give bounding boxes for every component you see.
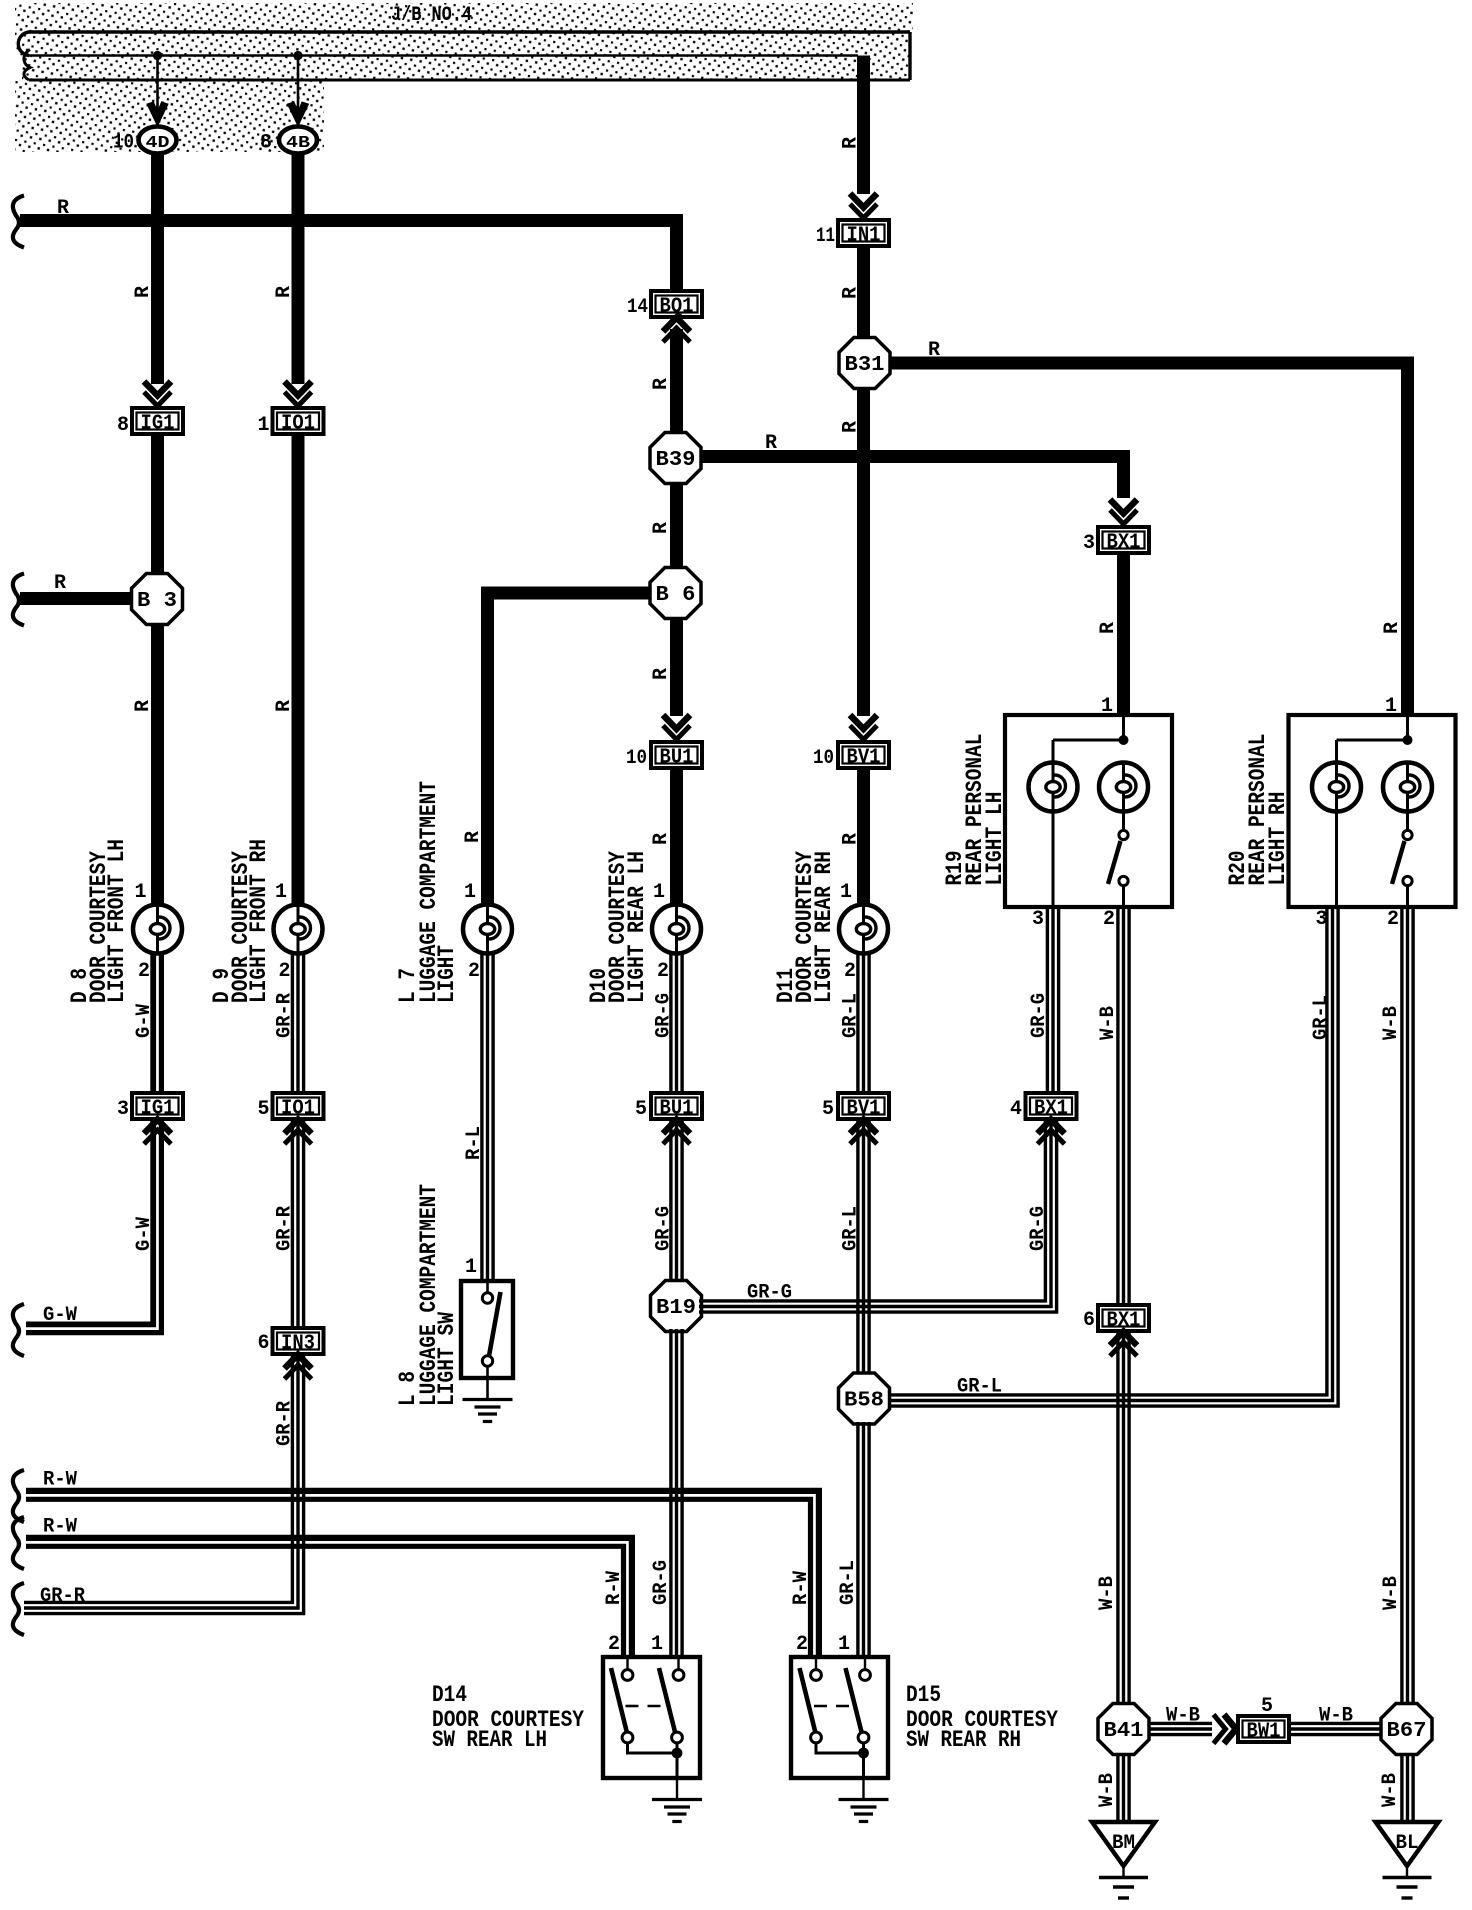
lamp D10 DOOR COURTESY LIGHT REAR LH <box>652 905 701 954</box>
svg-text:R: R <box>928 339 940 362</box>
svg-text:D14: D14 <box>432 1682 467 1708</box>
svg-text:R-W: R-W <box>790 1571 813 1605</box>
svg-text:BV1: BV1 <box>847 747 881 770</box>
svg-text:G-W: G-W <box>43 1304 77 1327</box>
svg-text:GR-G: GR-G <box>1028 993 1051 1038</box>
svg-text:LIGHT REAR LH: LIGHT REAR LH <box>624 851 650 1003</box>
label R20 REAR PERSONAL LIGHT RH <box>1225 734 1291 886</box>
arrow out of IG1 lower <box>144 1120 171 1134</box>
svg-text:3: 3 <box>117 1098 129 1121</box>
wire R vertical from 4B to IO1 <box>292 153 305 384</box>
svg-text:R: R <box>132 700 155 712</box>
arrow out of BU1 lower <box>663 1120 690 1134</box>
svg-text:SW REAR RH: SW REAR RH <box>906 1727 1021 1753</box>
connector 3 BX1 <box>1098 527 1149 555</box>
svg-text:R: R <box>840 287 863 299</box>
svg-text:2: 2 <box>844 960 856 983</box>
wire R from J/B to IN1 <box>857 56 870 195</box>
label D11 DOOR COURTESY LIGHT REAR RH <box>773 851 837 1003</box>
svg-text:BW1: BW1 <box>1247 1721 1281 1744</box>
svg-text:IO1: IO1 <box>281 413 315 436</box>
node B39 <box>650 433 701 484</box>
wire R vertical from 4D to IG1 <box>151 153 164 384</box>
svg-text:GR-L: GR-L <box>840 1206 863 1251</box>
ground at D15 <box>839 1798 889 1801</box>
svg-text:2: 2 <box>1103 908 1115 931</box>
svg-text:2: 2 <box>1387 908 1399 931</box>
svg-text:10: 10 <box>813 747 834 770</box>
connector 8 IG1 <box>132 408 183 436</box>
svg-text:1: 1 <box>257 414 269 437</box>
arrow into IN1 <box>850 194 877 208</box>
node B58 <box>839 1373 890 1424</box>
wire W-B from R19 pin 2 to BX1 (6) <box>1116 909 1119 1305</box>
wire R from BV1 to lamp D11 <box>857 768 870 906</box>
svg-text:R: R <box>54 572 66 595</box>
arrow out of IO1 lower <box>285 1120 312 1134</box>
svg-text:2: 2 <box>278 960 290 983</box>
ground triangle BL <box>1376 1822 1439 1876</box>
wire R from B6 left to lamp L7 <box>481 587 652 600</box>
svg-text:R: R <box>1381 622 1404 634</box>
svg-text:2: 2 <box>608 1633 620 1656</box>
svg-text:J/B NO.4: J/B NO.4 <box>391 4 472 27</box>
svg-text:2: 2 <box>796 1633 808 1656</box>
label D10 DOOR COURTESY LIGHT REAR LH <box>586 851 650 1003</box>
connector 3 IG1 lower <box>132 1093 183 1121</box>
svg-text:GR-G: GR-G <box>650 1560 673 1605</box>
arrow out of BX1 (6) <box>1110 1332 1137 1346</box>
wire R from BU1 to lamp D10 <box>670 768 683 906</box>
svg-text:LIGHT SW: LIGHT SW <box>434 1312 460 1406</box>
svg-text:GR-R: GR-R <box>274 993 297 1038</box>
svg-text:6: 6 <box>1083 1309 1095 1332</box>
connector 10 BV1 <box>838 742 889 770</box>
svg-text:R: R <box>273 700 296 712</box>
node B67 <box>1381 1704 1432 1755</box>
tap junction dot 4D <box>153 51 162 60</box>
svg-text:R: R <box>650 833 673 845</box>
ground hatch BL <box>1383 1876 1432 1879</box>
lamp D8 DOOR COURTESY LIGHT FRONT LH <box>133 905 182 954</box>
arrow out of BX1 (4) <box>1038 1120 1065 1134</box>
ground triangle BM <box>1092 1822 1155 1876</box>
component R19 REAR PERSONAL LIGHT LH <box>1005 715 1172 907</box>
svg-text:IG1: IG1 <box>141 413 175 436</box>
wire GR-G from lamp D10 to BU1 (5) <box>669 953 672 1093</box>
svg-text:2: 2 <box>657 960 669 983</box>
svg-text:GR-G: GR-G <box>1027 1206 1050 1251</box>
wire W-B from BW1 to B67 <box>1290 1722 1382 1725</box>
switch D15 DOOR COURTESY SW REAR RH <box>791 1657 888 1798</box>
svg-text:GR-R: GR-R <box>40 1585 85 1608</box>
connector 5 IO1 lower <box>273 1093 324 1121</box>
wire R break to B3 <box>20 592 133 605</box>
wire GR-R from IO1 to IN3 <box>291 1119 294 1328</box>
break symbol G-W <box>13 1304 24 1356</box>
svg-text:R: R <box>132 286 155 298</box>
svg-text:3: 3 <box>1032 908 1044 931</box>
svg-text:W-B: W-B <box>1379 1773 1402 1807</box>
svg-text:4B: 4B <box>286 134 310 153</box>
wire R from B6 down to BU1 <box>670 617 683 716</box>
svg-text:BX1: BX1 <box>1107 532 1141 555</box>
svg-text:W-B: W-B <box>1096 1773 1119 1807</box>
svg-text:R: R <box>462 831 485 843</box>
wire R from IG1 down through B3 to lamp D8 <box>151 434 164 906</box>
svg-text:5: 5 <box>635 1098 647 1121</box>
break symbol R at B3 <box>13 574 24 626</box>
node B19 <box>651 1281 702 1332</box>
svg-text:R: R <box>650 522 673 534</box>
svg-text:B 3: B 3 <box>137 590 177 613</box>
wire R from B39 down to B6 <box>670 482 683 570</box>
wire GR-L from lamp D11 to BV1 (5) <box>856 953 859 1093</box>
arrow out of BQ1 <box>663 318 690 332</box>
svg-text:1: 1 <box>464 881 476 904</box>
arrow into BW1 <box>1224 1715 1236 1744</box>
connector 11 IN1 <box>838 220 889 248</box>
svg-text:5: 5 <box>257 1098 269 1121</box>
svg-text:D15: D15 <box>906 1682 941 1708</box>
svg-text:G-W: G-W <box>133 1004 156 1038</box>
svg-text:R: R <box>840 833 863 845</box>
wire G-W from lamp D8 to IG1 (3) <box>150 953 156 1093</box>
switch L8 LUGGAGE COMPARTMENT LIGHT SW <box>461 1281 513 1398</box>
wire R horizontal feed to BQ1 <box>20 214 670 227</box>
svg-text:GR-G: GR-G <box>653 993 676 1038</box>
bus bar of J/B NO.4 <box>18 32 910 80</box>
svg-text:R: R <box>650 668 673 680</box>
svg-text:10: 10 <box>113 132 134 155</box>
svg-text:BU1: BU1 <box>660 747 694 770</box>
wire R from B39 to BX1 right <box>699 450 1130 463</box>
svg-text:B67: B67 <box>1387 1720 1427 1743</box>
svg-text:B41: B41 <box>1104 1720 1144 1743</box>
svg-text:R: R <box>1097 622 1120 634</box>
svg-text:14: 14 <box>627 296 648 319</box>
svg-text:GR-G: GR-G <box>653 1206 676 1251</box>
label D15 DOOR COURTESY SW REAR RH <box>906 1682 1058 1753</box>
junction block J/B NO.4 stipple background <box>15 3 913 152</box>
arrow into BU1 <box>663 715 690 729</box>
lamp L7 LUGGAGE COMPARTMENT LIGHT <box>463 905 512 954</box>
wire R from B31 down to BV1 <box>857 387 870 716</box>
svg-text:5: 5 <box>1261 1695 1273 1718</box>
break symbol GR-R <box>13 1583 24 1635</box>
svg-text:1: 1 <box>840 881 852 904</box>
svg-text:R: R <box>273 286 296 298</box>
svg-text:GR-R: GR-R <box>274 1401 297 1446</box>
svg-text:G-W: G-W <box>133 1217 156 1251</box>
tap arrow 4D <box>147 102 168 126</box>
svg-text:LIGHT FRONT LH: LIGHT FRONT LH <box>104 839 130 1003</box>
svg-text:R: R <box>840 421 863 433</box>
label D9 DOOR COURTESY LIGHT FRONT RH <box>209 839 272 1003</box>
svg-text:B58: B58 <box>844 1390 884 1413</box>
svg-text:LIGHT REAR RH: LIGHT REAR RH <box>811 851 837 1003</box>
tap junction dot 4B <box>293 51 302 60</box>
node B 6 <box>650 568 701 619</box>
connector 4 BX1 <box>1026 1093 1077 1121</box>
svg-text:R: R <box>840 137 863 149</box>
svg-text:IN1: IN1 <box>847 225 881 248</box>
connector 6 IN3 <box>273 1328 324 1356</box>
wire GR-R from IN3 down to break <box>24 1353 292 1602</box>
wire R from IO1 down to lamp D9 <box>292 434 305 906</box>
svg-text:4D: 4D <box>146 134 170 153</box>
svg-text:W-B: W-B <box>1097 1006 1120 1040</box>
ground hatch BM <box>1099 1876 1148 1879</box>
wire GR-G from R19 pin 3 to BX1 (4) <box>1046 909 1049 1093</box>
svg-text:5: 5 <box>822 1098 834 1121</box>
svg-text:1: 1 <box>651 1633 663 1656</box>
svg-text:B39: B39 <box>656 449 696 472</box>
label D8 DOOR COURTESY LIGHT FRONT LH <box>67 839 130 1003</box>
svg-text:GR-L: GR-L <box>840 993 863 1038</box>
wire GR-G from BU1 to B19 <box>669 1119 672 1283</box>
svg-text:8: 8 <box>117 414 129 437</box>
svg-text:W-B: W-B <box>1166 1705 1200 1728</box>
wire R from B39 up to BQ1 <box>670 329 683 434</box>
svg-text:R-W: R-W <box>603 1571 626 1605</box>
svg-text:W-B: W-B <box>1096 1576 1119 1610</box>
svg-text:BM: BM <box>1112 1832 1135 1855</box>
svg-text:W-B: W-B <box>1380 1576 1403 1610</box>
svg-text:W-B: W-B <box>1380 1006 1403 1040</box>
svg-text:GR-L: GR-L <box>1310 995 1333 1040</box>
label D14 DOOR COURTESY SW REAR LH <box>432 1682 584 1753</box>
svg-text:8: 8 <box>260 132 272 155</box>
label L8 LUGGAGE COMPARTMENT LIGHT SW <box>395 1184 460 1406</box>
node B41 <box>1098 1704 1149 1755</box>
lamp D11 DOOR COURTESY LIGHT REAR RH <box>839 905 888 954</box>
svg-text:B31: B31 <box>845 354 885 377</box>
arrow into BX1 (3) <box>1110 500 1137 514</box>
wire R from IN1 to B31 <box>857 246 870 340</box>
tap wire to connector 4D <box>156 56 159 128</box>
tap wire to connector 4B <box>297 56 300 128</box>
wire R-L from lamp L7 to luggage switch L8 <box>480 953 483 1281</box>
svg-text:4: 4 <box>1010 1098 1022 1121</box>
svg-text:SW REAR LH: SW REAR LH <box>432 1727 547 1753</box>
lamp D9 DOOR COURTESY LIGHT FRONT RH <box>274 905 323 954</box>
arrow out of IN3 <box>285 1355 312 1369</box>
svg-text:GR-R: GR-R <box>274 1206 297 1251</box>
node B 3 <box>132 574 183 625</box>
connector 5 BW1 <box>1238 1716 1289 1744</box>
svg-text:2: 2 <box>138 960 150 983</box>
svg-text:11: 11 <box>816 225 835 248</box>
connector 5 BV1 lower <box>838 1093 889 1121</box>
wire GR-L from B58 right up to R20 pin 3 <box>889 908 1327 1395</box>
wire W-B from B41 to ground BM <box>1116 1753 1119 1822</box>
wire W-B from B41 to BW1 <box>1149 1722 1212 1725</box>
svg-text:BL: BL <box>1396 1832 1419 1855</box>
wire G-W from IG1 to break <box>26 1119 153 1324</box>
svg-text:3: 3 <box>1083 532 1095 555</box>
wire W-B from BX1 (6) down to B41 <box>1116 1330 1119 1705</box>
svg-text:R-L: R-L <box>463 1126 486 1160</box>
svg-text:GR-G: GR-G <box>747 1282 792 1305</box>
switch D14 DOOR COURTESY SW REAR LH <box>603 1657 700 1798</box>
svg-text:6: 6 <box>257 1332 269 1355</box>
label L7 LUGGAGE COMPARTMENT LIGHT <box>395 781 460 1003</box>
connector oval 10 (4D) <box>139 127 177 154</box>
connector 14 BQ1 <box>651 291 702 319</box>
svg-text:R: R <box>765 432 777 455</box>
svg-text:LIGHT: LIGHT <box>434 945 460 1003</box>
label J/B NO.4 <box>391 4 472 27</box>
wire W-B from R20 pin 2 to B67 <box>1400 909 1403 1705</box>
ground at D14 <box>652 1798 702 1801</box>
svg-text:10: 10 <box>626 747 647 770</box>
node B31 <box>839 338 890 389</box>
svg-text:1: 1 <box>653 881 665 904</box>
label R19 REAR PERSONAL LIGHT LH <box>942 734 1008 886</box>
arrow into BV1 <box>850 715 877 729</box>
svg-text:GR-L: GR-L <box>837 1560 860 1605</box>
wire W-B from B67 to ground BL <box>1400 1753 1403 1822</box>
tap arrow 4B <box>288 102 309 126</box>
ground at L8 <box>463 1398 513 1401</box>
wire GR-L from BV1 to B58 <box>856 1119 859 1375</box>
arrow into IO1 <box>285 382 312 396</box>
break symbol R feed left <box>13 196 24 248</box>
connector 10 BU1 <box>651 742 702 770</box>
svg-text:1: 1 <box>134 881 146 904</box>
svg-text:1: 1 <box>838 1633 850 1656</box>
svg-text:LIGHT FRONT RH: LIGHT FRONT RH <box>246 839 272 1003</box>
wire GR-L from B58 down to D15 pin 1 <box>856 1422 859 1657</box>
svg-text:3: 3 <box>1315 908 1327 931</box>
svg-text:W-B: W-B <box>1319 1705 1353 1728</box>
svg-text:2: 2 <box>468 960 480 983</box>
svg-text:1: 1 <box>275 881 287 904</box>
wire R-W break 1 <box>13 1470 24 1522</box>
component R20 REAR PERSONAL LIGHT RH <box>1289 715 1456 907</box>
connector 5 BU1 lower <box>651 1093 702 1121</box>
wire R-W break 2 <box>13 1517 24 1569</box>
wire R from B31 to R20 <box>888 357 1414 370</box>
wire GR-G from B19 down to D14 pin 1 <box>669 1329 672 1657</box>
connector 1 IO1 <box>273 408 324 436</box>
arrow into IG1 <box>144 382 171 396</box>
svg-text:B 6: B 6 <box>656 584 696 607</box>
wire R from BX1 to R19 <box>1117 553 1130 713</box>
connector oval 8 (4B) <box>279 127 317 154</box>
connector 6 BX1 <box>1098 1305 1149 1333</box>
svg-text:B19: B19 <box>656 1297 696 1320</box>
svg-text:GR-L: GR-L <box>957 1376 1002 1399</box>
wire GR-G from B19 right up to BX1 (4) <box>699 1119 1045 1301</box>
arrow out of BV1 lower <box>850 1120 877 1134</box>
svg-text:1: 1 <box>465 1256 477 1279</box>
svg-text:R: R <box>650 378 673 390</box>
wire GR-R from lamp D9 to IO1 (5) <box>291 953 294 1093</box>
